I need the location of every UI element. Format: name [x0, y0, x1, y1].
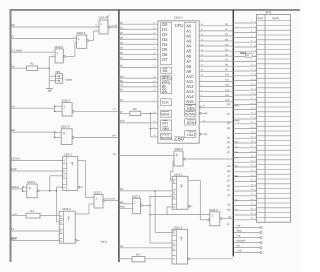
wire CPU pin A1: [199, 30, 233, 32]
svg-text:МЛ: МЛ: [11, 24, 15, 27]
svg-text:ВПР: ВПР: [11, 237, 17, 241]
OR gate DD2.3: [208, 208, 233, 226]
svg-text:Конт: Конт: [257, 16, 264, 20]
svg-text:MREQ: MREQ: [162, 77, 173, 81]
svg-text:ВПВ: ВПВ: [11, 168, 17, 171]
wire net ВМ from left border y=132.1: [11, 131, 55, 133]
wire XP3 pin 35: [233, 185, 256, 187]
svg-text:Z80: Z80: [174, 136, 185, 143]
connector XP1: [49, 70, 73, 83]
wire CPU pin D3: [119, 38, 158, 40]
svg-text:D: D: [60, 221, 62, 224]
resistor R3: [130, 111, 141, 115]
svg-text:ГЧ: ГЧ: [235, 146, 238, 149]
table XP3 row line 28: [257, 149, 291, 151]
svg-text:C: C: [60, 230, 62, 233]
wire XP3 pin 14: [233, 84, 256, 86]
resistor R1: [27, 62, 50, 71]
wire CPU pin MREQ: [119, 77, 158, 79]
OR gate DD6.3: [54, 98, 119, 116]
wire CPU pin A12: [199, 85, 233, 87]
wire XP3 pin 4: [233, 36, 256, 38]
table XP3 row line 20: [257, 111, 291, 113]
wire XP3 pin 9: [233, 60, 256, 62]
svg-text:R1: R1: [30, 62, 34, 66]
svg-text:DD4.1: DD4.1: [174, 15, 183, 19]
svg-text:A15: A15: [186, 99, 194, 104]
wire net ВПВ from left border y=171.0: [11, 170, 63, 172]
table XP3 row line 3: [257, 29, 291, 31]
CPU right field A0-A15 box: [185, 22, 196, 104]
svg-text:RFSH: RFSH: [187, 121, 196, 125]
svg-text:INT: INT: [162, 121, 169, 125]
svg-text:Цепь: Цепь: [272, 16, 279, 20]
flip-flop DD1.2: [172, 225, 188, 264]
wire net СБРОС from left border y=160.4: [11, 159, 63, 161]
bus right (group line): [232, 10, 234, 257]
wire CPU pin WR: [119, 90, 158, 92]
svg-text:C: C: [173, 247, 175, 250]
svg-text:ВЧ: ВЧ: [113, 134, 116, 137]
wire XP3 pin 29: [233, 156, 256, 158]
svg-text:ПСИ,ЛММ: ПСИ,ЛММ: [105, 198, 115, 201]
table XP3 row line 11: [257, 68, 291, 70]
svg-text:DD6.2: DD6.2: [55, 45, 64, 49]
wire XP3 pin 8: [233, 56, 256, 58]
svg-text:IORQ: IORQ: [162, 81, 171, 85]
svg-text:D: D: [173, 242, 175, 245]
wire CPU pin A0: [199, 25, 233, 27]
table XP3 row line 10: [257, 63, 291, 65]
wire CPU pin CLK: [119, 101, 158, 103]
table XP3 row line 42: [257, 216, 291, 218]
svg-text:S: S: [173, 206, 175, 209]
wire riser to DD3.2 D and DD3.1 S: [55, 187, 57, 222]
wire riser to DD1.2 R: [154, 191, 156, 233]
wire CPU pin A13: [199, 90, 233, 92]
wire riser DD5.3 in to DD1.1 R: [172, 161, 174, 172]
wire XP3 pin 16: [233, 94, 256, 96]
table XP3 row line 23: [257, 125, 291, 127]
wire CPU pin A10: [199, 75, 233, 77]
table XP3 row line 14: [257, 82, 291, 84]
svg-text:МО: МО: [227, 165, 231, 168]
svg-text:D: D: [173, 191, 175, 194]
svg-text:ИМ: ИМ: [120, 201, 124, 204]
wire riser to XP1 and R1 junction: [48, 57, 50, 89]
svg-text:DD2.1: DD2.1: [94, 191, 103, 195]
resistor R2: [26, 209, 59, 218]
svg-text:ГФ: ГФ: [11, 105, 14, 108]
wire XP3 pin 37: [233, 195, 256, 197]
svg-text:ГЗ: ГЗ: [11, 228, 14, 231]
table XP3 row line 12: [257, 72, 291, 74]
svg-text:M1: M1: [163, 69, 168, 73]
svg-text:ЗПР: ЗПР: [120, 120, 125, 123]
svg-text:RD: RD: [162, 85, 167, 89]
table XP3 row line 31: [257, 164, 291, 166]
svg-text:WR: WR: [162, 90, 168, 94]
wire DD1.2 S through R4: [119, 258, 132, 260]
svg-text:ЗМ: ЗМ: [120, 188, 123, 191]
svg-text:А10: А10: [225, 74, 230, 77]
flip-flop DD1.1: [172, 172, 188, 209]
wire net ГЗ from left border y=231.0: [11, 230, 59, 232]
wire CPU pin M1: [119, 66, 158, 68]
svg-text:-5В: -5В: [236, 245, 240, 248]
svg-text:ВМ: ВМ: [120, 80, 124, 83]
wire XP3 pin 38: [233, 200, 256, 202]
svg-text:R: R: [60, 215, 62, 218]
CPU left field MREQ/IORQ/RD/WR box: [161, 76, 172, 94]
wire net ЗП from left border y=215.5: [11, 215, 26, 217]
CPU right field HALT box: [185, 131, 196, 138]
table XP3 row line 36: [257, 188, 291, 190]
table XP3 row line 25: [257, 135, 291, 137]
wire XP3 pin 41: [233, 214, 256, 216]
wire XP3 pin 36: [233, 190, 256, 192]
svg-text:DD3.1: DD3.1: [64, 153, 73, 157]
svg-text:ВЧ: ВЧ: [235, 151, 238, 154]
wire XP3 pin 40: [233, 209, 256, 211]
wire power ОБЩИЙ: [234, 239, 262, 244]
CPU left field BUSRQ box: [161, 133, 172, 140]
wire XP3 pin 20: [233, 113, 256, 115]
svg-text:WAIT: WAIT: [161, 113, 170, 117]
wire CPU pin A6: [199, 55, 233, 57]
wire CPU pin A3: [199, 40, 233, 42]
wire CPU pin D1: [119, 28, 158, 30]
svg-text:ДО: ДО: [227, 103, 231, 106]
table XP3 row line 29: [257, 154, 291, 156]
wire CPU pin BUSRQ: [150, 136, 158, 138]
table XP3 row line 24: [257, 130, 291, 132]
wire to DD2.3 upper input: [150, 214, 210, 216]
svg-text:ЧЗ: ЧЗ: [11, 65, 15, 68]
svg-text:DD2.2: DD2.2: [132, 195, 141, 199]
svg-text:СИ: СИ: [227, 194, 231, 197]
wire riser WAIT to NMI/BUSRQ: [149, 114, 151, 137]
wire riser DD6.1 out to DD6.4 in: [93, 31, 95, 41]
svg-text:←ЗП: ←ЗП: [11, 213, 17, 216]
svg-text:ЗМ: ЗМ: [227, 204, 230, 207]
svg-text:СИ: СИ: [120, 245, 124, 248]
svg-text:XP1: XP1: [55, 70, 61, 74]
wire power +5В: [234, 235, 262, 239]
CPU left field M1 box: [161, 67, 172, 73]
table XP3 row line 16: [257, 92, 291, 94]
svg-text:МРЗ: МРЗ: [234, 105, 239, 108]
ground symbol: [46, 89, 53, 92]
svg-text:А12: А12: [225, 84, 230, 87]
svg-text:А14: А14: [225, 94, 230, 97]
wire XP3 pin 17: [233, 99, 256, 101]
svg-text:S: S: [173, 258, 175, 261]
svg-text:С.Х.ИМВ: С.Х.ИМВ: [11, 49, 22, 52]
CPU DD4.1 Z80 outline: [158, 15, 199, 143]
svg-text:+5В: +5В: [236, 225, 241, 228]
wire DD1.1 S stub: [167, 206, 172, 208]
svg-text:ЗВПД: ЗВПД: [101, 240, 108, 243]
wire stub up from DD6.4 output: [107, 17, 109, 27]
OR gate DD6.1: [73, 31, 93, 48]
table XP3 row line 32: [257, 168, 291, 170]
wire DD1.2 C from bus: [119, 247, 172, 249]
wire CPU pin A4: [199, 45, 233, 47]
svg-text:D7: D7: [162, 57, 168, 62]
wire XP3 pin 39: [233, 204, 256, 206]
svg-text:ГФ: ГФ: [235, 165, 238, 168]
wire XP3 pin 13: [233, 80, 256, 82]
svg-text:R: R: [63, 160, 65, 163]
wire XP3 pin 1: [233, 22, 256, 24]
svg-text:РФШ: РФШ: [234, 119, 239, 122]
wire net С.Х.ИМВ from left border y=52.2: [11, 51, 55, 53]
svg-text:ВМ: ВМ: [227, 170, 231, 173]
svg-text:ЛМЗ: ЛМЗ: [120, 206, 125, 209]
wire CPU pin A5: [199, 50, 233, 52]
table XP3 row line 37: [257, 192, 291, 194]
wire DD1.1 Q to DD2.3: [188, 179, 200, 181]
wire XP3 pin 22: [233, 123, 256, 125]
wire XP3 pin 18: [233, 104, 256, 106]
wire DD3.2 notQ stub: [75, 239, 77, 241]
svg-text:D: D: [63, 170, 65, 173]
table XP3 row line 2: [257, 24, 291, 26]
svg-text:ВГ,: ВГ,: [228, 216, 232, 219]
flip-flop DD3.1: [63, 153, 78, 191]
CPU right field RFSH box: [185, 119, 196, 125]
wire riser DD5.1 out to DD3.1 C: [49, 176, 51, 191]
svg-text:CPU: CPU: [175, 23, 184, 28]
wire CPU pin NMI: [150, 128, 158, 130]
svg-text:T: T: [67, 216, 70, 221]
wire CPU pin A2: [199, 35, 233, 37]
table XP3 row line 22: [257, 120, 291, 122]
connector table XP3: [257, 10, 291, 222]
wire XP3 pin 25: [233, 137, 256, 139]
wire XP3 pin 26: [233, 142, 256, 144]
svg-text:NMI: NMI: [162, 127, 169, 131]
svg-text:DD1.1: DD1.1: [174, 172, 183, 176]
svg-text:ОБЩ: ОБЩ: [240, 52, 247, 55]
CPU left field CLK box: [161, 99, 172, 106]
svg-text:ВМ: ВМ: [235, 175, 239, 178]
wire XP3 pin 28: [233, 152, 256, 154]
wire CPU pin D4: [119, 43, 158, 45]
svg-text:Тцифк: Тцифк: [64, 78, 73, 81]
wire XP3 pin 32: [233, 171, 256, 173]
svg-text:T: T: [71, 162, 74, 167]
wire XP3 pin 23: [233, 128, 256, 130]
frame left border: [10, 9, 12, 262]
wire DD3.1 notQ stub: [78, 186, 80, 188]
CPU left field D0-D7 box: [161, 22, 172, 65]
svg-text:DD6.1: DD6.1: [77, 31, 86, 35]
svg-text:DD6.4: DD6.4: [99, 16, 108, 20]
svg-text:DD1.2: DD1.2: [174, 225, 183, 229]
svg-text:C: C: [63, 175, 65, 178]
svg-text:T: T: [180, 184, 183, 189]
svg-text:R: R: [173, 180, 175, 183]
svg-text:&: &: [29, 186, 31, 190]
wire net МЛ from left border y=27.0: [11, 26, 99, 28]
wire riser DD6.2 out to DD6.1 in: [74, 43, 76, 57]
svg-text:DD6.3: DD6.3: [62, 98, 71, 102]
svg-text:HALT: HALT: [187, 133, 195, 137]
wire to DD1.2 D: [150, 242, 172, 244]
wire CPU pin D2: [119, 33, 158, 35]
table XP3 row line 39: [257, 202, 291, 204]
CPU left field INT/NMI box: [161, 120, 172, 131]
svg-text:ИМ: ИМ: [227, 208, 231, 211]
table XP3 row line 6: [257, 44, 291, 46]
table XP3 row line 35: [257, 183, 291, 185]
svg-text:&: &: [176, 153, 178, 157]
svg-text:ЧМЗ: ЧМЗ: [234, 156, 239, 159]
svg-text:ВМ: ВМ: [11, 129, 15, 132]
svg-text:XP3: XP3: [265, 10, 271, 14]
wire XP3 pin 2: [233, 27, 256, 29]
wire net ГФ from left border y=108.2: [11, 107, 55, 109]
wire CPU pin WAIT: [119, 113, 130, 115]
wire XP3 pin 6: [233, 46, 256, 48]
AND gate DD5.2: [54, 125, 119, 145]
wire net ЖВЕО from left border y=189.0: [11, 188, 23, 190]
svg-text:DD2.3: DD2.3: [209, 208, 218, 212]
AND gate DD5.3: [113, 147, 234, 166]
wire CPU pin A8: [199, 65, 233, 67]
table XP3 row line 34: [257, 178, 291, 180]
wire net ВПР from left border y=240.5: [11, 240, 59, 242]
wire power ОБЩ: [234, 230, 262, 234]
wire CPU pin D0: [119, 23, 158, 25]
svg-text:ОБЩИЙ: ОБЩИЙ: [236, 239, 245, 243]
table XP3 row line 13: [257, 77, 291, 79]
table XP3 row line 17: [257, 96, 291, 98]
svg-text:BUSRQ: BUSRQ: [161, 136, 173, 140]
wire DD3.2 Q to DD2.1 input: [75, 213, 89, 215]
svg-text:А15: А15: [225, 99, 230, 102]
table XP3 row line 1: [257, 20, 291, 22]
wire XP3 pin 27: [233, 147, 256, 149]
bus left (group line): [118, 10, 120, 262]
OR gate DD6.4: [94, 16, 119, 34]
table XP3 row line 26: [257, 140, 291, 142]
svg-text:R2: R2: [30, 209, 34, 213]
CPU right field RES box: [185, 105, 196, 111]
wire DD3.1 Q to DD2.1 input: [78, 159, 86, 161]
table XP3 row line 33: [257, 173, 291, 175]
wire DD1.1 notQ stub: [188, 205, 190, 207]
wire power +5В: [234, 225, 262, 229]
svg-text:R3: R3: [133, 107, 137, 111]
svg-text:ГЗ: ГЗ: [11, 36, 14, 39]
boxed net label on XP3 wire: [245, 54, 252, 58]
wire DD1.1 C: [150, 196, 172, 198]
wire CPU pin A9: [199, 70, 233, 72]
wire CPU pin A11: [199, 80, 233, 82]
OR gate DD6.2: [49, 45, 65, 63]
svg-text:DD3.2: DD3.2: [62, 207, 71, 211]
table XP3 row line 8: [257, 53, 291, 55]
wire XP3 pin 34: [233, 180, 256, 182]
wire XP3 pin 12: [233, 75, 256, 77]
svg-text:C: C: [173, 196, 175, 199]
svg-text:R4: R4: [136, 252, 140, 256]
svg-text:А13: А13: [225, 89, 230, 92]
wire XP3 pin 7: [233, 51, 256, 53]
wire XP3 pin 15: [233, 89, 256, 91]
wire power -5В: [234, 245, 262, 249]
wire CPU pin D6: [119, 53, 158, 55]
svg-text:+12В: +12В: [236, 250, 242, 253]
table XP3 row line 18: [257, 101, 291, 103]
table XP3 row line 9: [257, 58, 291, 60]
svg-text:CLK: CLK: [162, 101, 170, 105]
wire XP3 pin 21: [233, 118, 256, 120]
svg-text:+5В: +5В: [236, 235, 241, 238]
svg-text:R: R: [173, 232, 175, 235]
svg-text:СИ: СИ: [120, 99, 124, 102]
svg-text:ПЧ: ПЧ: [113, 153, 117, 156]
svg-text:DD5.2: DD5.2: [61, 125, 70, 129]
wire DD1.1 D from bus: [119, 190, 172, 192]
table XP3 row line 7: [257, 48, 291, 50]
table XP3 row line 41: [257, 212, 291, 214]
table XP3 row line 27: [257, 144, 291, 146]
wire XP3 pin 31: [233, 166, 256, 168]
svg-text:T: T: [180, 237, 183, 242]
table XP3 row line 15: [257, 87, 291, 89]
CPU left field WAIT box: [161, 110, 172, 117]
wire net ГЗ from left border y=38.5: [11, 38, 77, 40]
flip-flop DD3.2: [59, 207, 75, 243]
table XP3 row line 4: [257, 34, 291, 36]
wire CPU pin A14: [199, 96, 233, 98]
wire XP3 pin 30: [233, 161, 256, 163]
svg-text:С1,ВЛ: С1,ВЛ: [111, 24, 118, 27]
table XP3 row line 19: [257, 106, 291, 108]
wire CPU pin A15: [199, 101, 233, 103]
svg-text:ГЧ: ГЧ: [113, 108, 116, 111]
wire XP3 pin 10: [233, 65, 256, 67]
svg-text:S: S: [63, 186, 65, 189]
wire XP3 pin 33: [233, 176, 256, 178]
AND gate DD5.1: [22, 180, 56, 198]
wire CPU pin INT: [119, 122, 158, 124]
wire CPU pin IORQ: [119, 82, 158, 84]
table XP3 row line 40: [257, 207, 291, 209]
wire XP3 pin 3: [233, 32, 256, 34]
svg-text:BUSAK: BUSAK: [185, 112, 195, 116]
svg-text:ОБЩ: ОБЩ: [236, 230, 242, 233]
wire CPU pin RD: [119, 86, 158, 88]
svg-text:&: &: [63, 131, 65, 135]
table XP3 row line 5: [257, 39, 291, 41]
CPU right field BUSAK box: [185, 110, 196, 116]
wire net ЧЗ from left border y=68.2: [11, 67, 27, 69]
wire XP3 pin 24: [233, 132, 256, 134]
OR gate DD2.1: [94, 191, 119, 208]
svg-text:СБРОС: СБРОС: [11, 158, 20, 161]
svg-text:S: S: [60, 240, 62, 243]
wire power +12В: [234, 250, 262, 254]
svg-text:МО: МО: [120, 75, 124, 78]
svg-text:DD5.1: DD5.1: [27, 180, 36, 184]
table XP3 row line 38: [257, 197, 291, 199]
wire XP3 pin 11: [233, 70, 256, 72]
